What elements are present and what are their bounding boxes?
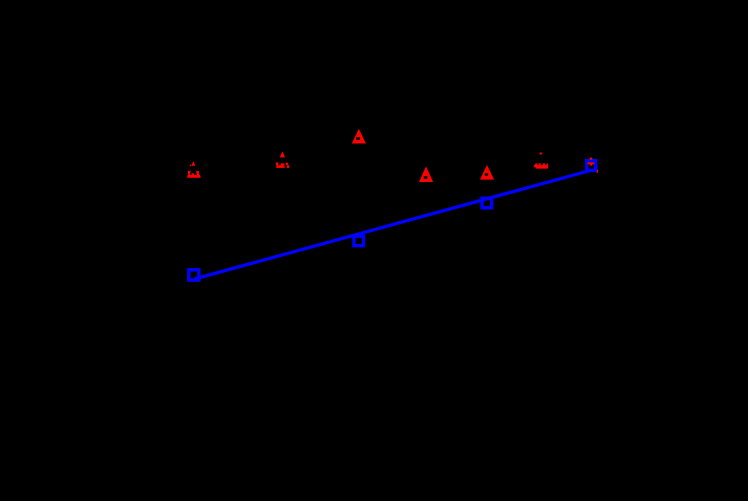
triangle T2 base strip left [276,165,284,168]
triangle T5 (red filled triangle, fully visible) [480,165,494,180]
marker S4 (hollow blue square, data point 4) [587,161,596,171]
triangle T1 base strip [187,175,201,178]
triangle T1 base bumps [188,173,190,175]
marker S1 (hollow blue square, data point 1) [189,270,199,280]
triangle T7 inner bump [590,164,592,165]
triangle T3 (red filled triangle, fully visible) [352,129,366,144]
triangle T1 apex fragment (red, partially occluded) [191,161,195,165]
triangle T1 apex side dot [190,165,191,167]
triangle T1 right mid blob [196,171,199,174]
notch on T5 (black overlay) [485,173,488,176]
triangle T6 base strip [536,165,548,169]
triangle T1 left mid blob [188,171,191,173]
marker S2 (hollow blue square, data point 2) [354,236,364,246]
notch on T4 (black overlay) [424,176,428,179]
marker S3 (hollow blue square, data point 3) [482,198,492,208]
triangle T6 base bumps [535,163,537,165]
triangle T4 (red filled triangle, fully visible) [419,166,433,182]
notch on T3 (black overlay) [356,137,360,140]
triangle T2 apex fragment (red, partially occluded) [280,151,285,157]
triangle T7 right corner tick [597,170,598,173]
triangle T2 left mid blob [276,162,279,165]
trend line (blue fit line) [194,170,591,279]
triangle T6 base left nub [534,165,536,168]
triangle T6 apex dot (red, heavily occluded) [540,153,543,155]
triangle T7 apex fragment (red, over square S4) [590,158,593,160]
triangle T2 base strip right [287,165,289,168]
triangle T7 inner band (red inside square S4) [588,162,595,164]
triangle T2 center bump [281,163,285,165]
triangle T2 right mid blob [286,163,288,165]
